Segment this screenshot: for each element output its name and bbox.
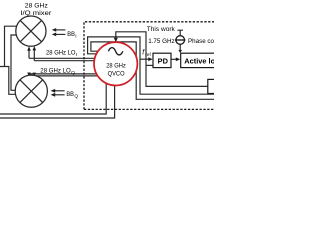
mixer M1 (I) [16,16,46,46]
svg-text:I: I [76,52,77,58]
svg-text:Active loop filter: Active loop filter [184,56,214,65]
wire QVCO bottom-left down and left along bottom [0,83,106,114]
svg-text:I/Q mixer: I/Q mixer [20,10,52,17]
svg-text:28 GHz: 28 GHz [25,3,49,10]
phase corrector circle symbol [175,36,185,45]
arrowheads [27,28,182,97]
arrowhead BB_I upper [52,28,56,32]
mixer M2 (Q) [15,75,47,107]
wire LO_Q line 1 [29,73,97,75]
wire C: tune line from top of QVCO to divider box [116,32,208,87]
sine symbol inside QVCO [108,48,122,55]
active loop filter box [181,53,222,67]
dashed chip boundary box [84,22,214,110]
wire theta down to filter box [179,44,181,50]
svg-text:PD: PD [158,56,169,65]
wire PD to filter arrow line [171,58,177,60]
wire f_ref input arrow line [140,58,150,60]
arrowhead theta into filter box [178,50,182,53]
PD box [153,53,171,67]
arrowhead PD into filter [176,57,180,61]
svg-text:Q: Q [74,93,78,99]
arrowhead LO_Q 2 down into mixer2 [33,73,37,77]
wire hook A: QVCO left up over top to right edge [88,37,214,94]
svg-text:I: I [75,34,76,40]
arrowhead BB_Q upper [51,89,56,93]
wire from left edge to mixer2 lower-left [0,67,16,95]
wire mixer1 upper-left output [5,26,17,66]
arrowhead LO_I 1 up into mixer1 [27,46,31,50]
svg-text:BB: BB [66,91,74,98]
svg-text:This work: This work [147,26,176,33]
svg-text:BB: BB [67,31,75,38]
arrowhead LO_Q 1 down into mixer2 [27,73,31,77]
arrowhead tune wire down into QVCO [114,38,118,43]
BB_I / BB_Q arrow shafts [53,30,65,95]
svg-text:28 GHz: 28 GHz [106,62,126,69]
QVCO circle [94,42,137,85]
svg-text:Q: Q [71,70,75,76]
arrowhead BB_I lower [52,33,56,37]
svg-text:28 GHz LO: 28 GHz LO [46,50,76,57]
divider box bottom right [208,79,225,93]
wire PD feedback spur [146,64,153,66]
arrowhead f_ref into PD [148,57,152,61]
svg-text:28 GHz LO: 28 GHz LO [40,68,71,75]
wire hook B: QVCO left up over top to right edge [91,42,214,99]
arrowhead LO_I 2 up into mixer1 [33,46,37,50]
arrowhead BB_Q lower [51,93,56,97]
wire mixer1 lower-left to mixer2 upper-left [11,35,16,90]
svg-text:ref: ref [145,52,151,57]
svg-text:Phase corrector: Phase corrector [188,38,214,45]
wire LO_I line 2 [34,49,94,60]
wire theta vertical with T bar [177,30,183,36]
svg-text:1.75 GHz: 1.75 GHz [148,38,175,45]
wire LO_I line 1 [29,50,95,59]
svg-text:QVCO: QVCO [108,70,125,77]
wire LO_Q line 2 [34,75,97,77]
wire QVCO bottom-right down and left along bottom [0,85,115,118]
